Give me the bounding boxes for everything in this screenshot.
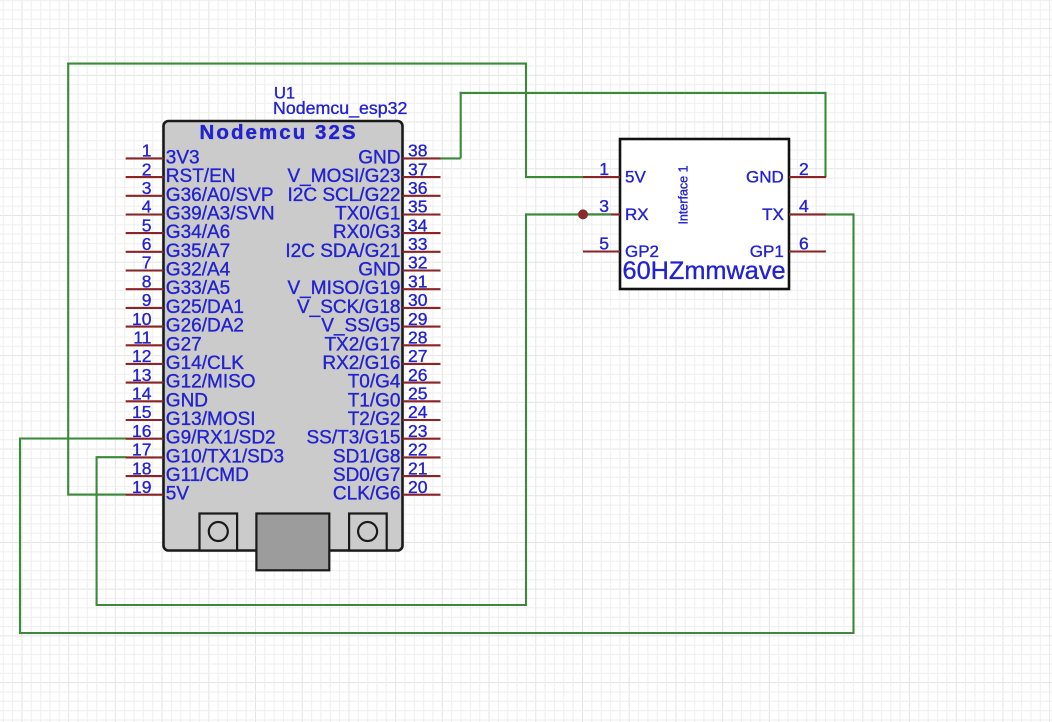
- wire GND net: U1 pin38 horizontal: [441, 157, 461, 159]
- svg-text:31: 31: [408, 271, 427, 291]
- svg-text:14: 14: [132, 384, 152, 404]
- svg-text:38: 38: [408, 141, 427, 161]
- svg-text:15: 15: [132, 402, 151, 422]
- U1 pin 20 (CLK/G6): [333, 477, 441, 505]
- U1 pin 22 (SD1/G8): [333, 440, 441, 468]
- component Interface 1 (60HZmmwave) body: [620, 139, 789, 289]
- wire 5V net: left vertical: [67, 63, 69, 496]
- svg-text:12: 12: [132, 346, 151, 366]
- U1 pin 36 (I2C SCL/G22): [288, 178, 441, 206]
- U1 pin 7 (G32/A4): [126, 253, 231, 281]
- wire TX net: right vertical up: [852, 214, 854, 634]
- svg-text:26: 26: [408, 365, 427, 385]
- wire TX net: far-left vertical: [19, 438, 21, 634]
- wire GND net: vertical down to mmwave pin2: [824, 92, 826, 177]
- svg-text:2: 2: [142, 159, 152, 179]
- svg-text:10: 10: [132, 309, 152, 329]
- wire 5V net: top horizontal: [67, 63, 526, 65]
- svg-text:CLK/G6: CLK/G6: [333, 484, 401, 505]
- wire GND net: vertical up: [460, 92, 462, 158]
- U1 pin 24 (T2/G2): [348, 402, 441, 430]
- wire 5V net: U1 pin19 horizontal: [68, 494, 126, 496]
- Interface1 pin 2 (GND): [746, 159, 826, 187]
- svg-text:Nodemcu_esp32: Nodemcu_esp32: [273, 98, 407, 119]
- wire RX net: overlap segment drawn over pin3 stub: [583, 213, 611, 215]
- svg-text:GP1: GP1: [750, 242, 784, 261]
- wire RX net: left vertical: [96, 456, 98, 605]
- svg-text:3: 3: [599, 196, 609, 216]
- svg-text:5: 5: [142, 215, 152, 235]
- U1 pin 21 (SD0/G7): [333, 458, 441, 486]
- Interface1 pin 6 (GP1): [750, 233, 826, 261]
- wire TX net: from mmwave pin4: [826, 213, 855, 215]
- svg-text:22: 22: [408, 440, 427, 460]
- svg-text:34: 34: [408, 215, 428, 235]
- svg-text:GP2: GP2: [625, 242, 659, 261]
- svg-text:5: 5: [599, 233, 609, 253]
- svg-text:30: 30: [408, 290, 428, 310]
- wire 5V net: vertical down to mmwave 5V: [525, 63, 527, 178]
- svg-text:5V: 5V: [625, 168, 646, 187]
- U1 pin 1 (3V3): [126, 141, 200, 169]
- svg-text:4: 4: [799, 196, 809, 216]
- svg-text:7: 7: [142, 253, 152, 273]
- svg-text:13: 13: [132, 365, 151, 385]
- U1 USB connector block: [256, 514, 329, 571]
- U1 pin 19 (5V): [126, 477, 190, 505]
- component U1 Nodemcu_esp32 (Nodemcu 32S) body: [164, 121, 403, 551]
- U1 pin 37 (V_MOSI/G23): [288, 159, 441, 187]
- U1 pin 15 (G13/MOSI): [126, 402, 256, 430]
- U1 pin 32 (GND): [358, 253, 440, 281]
- U1 pin 23 (SS/T3/G15): [307, 421, 441, 449]
- svg-text:6: 6: [799, 233, 809, 253]
- svg-text:Interface 1: Interface 1: [677, 165, 691, 224]
- svg-text:4: 4: [142, 197, 152, 217]
- wire TX net: U1 pin16 horizontal: [20, 437, 126, 439]
- U1 pin 11 (G27): [126, 328, 202, 356]
- svg-text:60HZmmwave: 60HZmmwave: [623, 257, 786, 285]
- U1 pin 34 (RX0/G3): [333, 215, 441, 243]
- svg-text:19: 19: [132, 477, 151, 497]
- svg-text:37: 37: [408, 159, 427, 179]
- svg-text:21: 21: [408, 458, 427, 478]
- U1 pin 26 (T0/G4): [348, 365, 441, 393]
- svg-text:11: 11: [133, 328, 151, 348]
- wire RX net: vertical up to RX row: [525, 213, 527, 606]
- svg-text:3: 3: [142, 178, 152, 198]
- U1 pin 33 (I2C SDA/G21): [285, 234, 440, 262]
- U1 pin 17 (G10/TX1/SD3): [126, 440, 284, 468]
- U1 pin 38 (GND): [358, 141, 440, 169]
- svg-text:Nodemcu 32S: Nodemcu 32S: [200, 121, 358, 144]
- U1 pin 18 (G11/CMD): [126, 458, 249, 486]
- U1 pin 4 (G39/A3/SVN): [126, 197, 275, 225]
- svg-text:5V: 5V: [166, 484, 190, 505]
- Interface1 pin 5 (GP2): [583, 233, 659, 261]
- wire GND net: top horizontal: [460, 92, 826, 94]
- svg-text:18: 18: [132, 458, 151, 478]
- svg-text:28: 28: [408, 328, 427, 348]
- Interface1 pin 4 (TX): [762, 196, 826, 224]
- svg-text:35: 35: [408, 197, 427, 217]
- svg-text:2: 2: [799, 159, 809, 179]
- svg-text:27: 27: [408, 346, 427, 366]
- U1 pin 31 (V_MISO/G19): [288, 271, 441, 299]
- Interface1 pin 1 (5V): [583, 159, 646, 187]
- wire RX net: bottom horizontal: [96, 604, 526, 606]
- svg-text:TX: TX: [762, 205, 784, 224]
- U1 pin 10 (G26/DA2): [126, 309, 244, 337]
- svg-text:33: 33: [408, 234, 427, 254]
- svg-text:6: 6: [142, 234, 152, 254]
- svg-text:9: 9: [142, 290, 152, 310]
- U1 pin 16 (G9/RX1/SD2): [126, 421, 276, 449]
- U1 pin 5 (G34/A6): [126, 215, 231, 243]
- svg-text:24: 24: [408, 402, 428, 422]
- U1 pin 14 (GND): [126, 384, 208, 412]
- U1 pin 3 (G36/A0/SVP): [126, 178, 274, 206]
- wire RX net: to mmwave pin3 endpoint: [526, 213, 584, 215]
- svg-text:1: 1: [599, 159, 609, 179]
- svg-text:8: 8: [142, 271, 152, 291]
- svg-text:RX: RX: [625, 205, 649, 224]
- U1 pin 27 (RX2/G16): [322, 346, 440, 374]
- U1 pin 13 (G12/MISO): [126, 365, 256, 393]
- svg-text:23: 23: [408, 421, 427, 441]
- svg-text:36: 36: [408, 178, 427, 198]
- junction dot on RX pin (net RX): [578, 209, 588, 219]
- U1 pin 9 (G25/DA1): [126, 290, 244, 318]
- U1 pin 30 (V_SCK/G18): [297, 290, 441, 318]
- svg-text:29: 29: [408, 309, 427, 329]
- wire 5V net: into mmwave pin1: [525, 176, 583, 178]
- U1 pin 6 (G35/A7): [126, 234, 231, 262]
- svg-text:25: 25: [408, 384, 427, 404]
- svg-text:32: 32: [408, 253, 427, 273]
- U1 pin 2 (RST/EN): [126, 159, 236, 187]
- svg-text:20: 20: [408, 477, 428, 497]
- U1 pin 12 (G14/CLK): [126, 346, 245, 374]
- svg-text:1: 1: [142, 141, 152, 161]
- wire RX net: U1 pin17 horizontal: [97, 456, 126, 458]
- U1 mounting pad left (square with circle): [200, 514, 238, 551]
- U1 mounting pad right (square with circle): [349, 514, 387, 551]
- U1 pin 8 (G33/A5): [126, 271, 231, 299]
- U1 pin 29 (V_SS/G5): [321, 309, 440, 337]
- svg-text:17: 17: [132, 440, 151, 460]
- U1 pin 28 (TX2/G17): [324, 328, 440, 356]
- svg-text:16: 16: [132, 421, 151, 441]
- Interface1 pin 3 (RX): [583, 196, 649, 224]
- wire TX net: bottom horizontal: [19, 632, 854, 634]
- U1 pin 35 (TX0/G1): [335, 197, 440, 225]
- U1 pin 25 (T1/G0): [348, 384, 441, 412]
- svg-text:GND: GND: [746, 168, 784, 187]
